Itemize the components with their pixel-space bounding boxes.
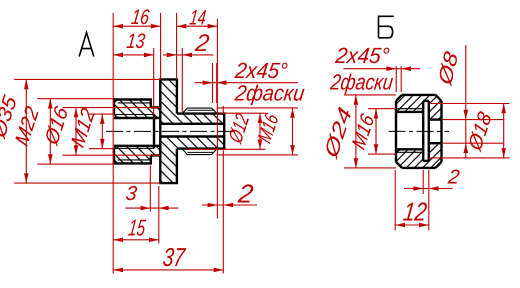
hole entry chamfer, bottom [114,146,118,149]
ext line groove left (bottom) [149,166,151,212]
stud body top edge (O12) [177,112,226,114]
ext line groove right (bottom), view B [428,170,430,231]
nut chamfer top-left [396,95,402,101]
groove left wall (O18) [422,101,424,161]
ext line chamfer end, stud end [216,63,218,103]
dim line M16, view B [375,109,377,154]
svg-text:2x45°: 2x45° [233,58,289,83]
dim line 37 [113,269,223,271]
M22 thread minor line, bottom [118,159,151,161]
leader line 2x45 chamfer, view B [343,68,420,70]
ext line nut left face (bottom) [394,170,396,231]
ext line chamfer start, view B [395,66,397,92]
dim line O35 [25,79,27,183]
dim line 3 (groove width) [125,207,178,209]
svg-text:15: 15 [127,215,147,241]
nut left face [395,101,397,162]
ext line at part left end [112,13,114,274]
svg-text:2фаски: 2фаски [329,70,395,95]
flange left face [159,79,161,183]
svg-text:16: 16 [130,6,151,29]
svg-text:3: 3 [124,183,138,205]
O12 ext line, bottom [188,148,266,150]
O8 hole edge, bottom [429,142,442,144]
O35 ext line, bottom [14,182,160,184]
groove bottom dia line, bottom [151,154,161,156]
flange right face, lower [176,149,178,184]
O18 ext line, top [430,103,510,105]
dim line 16 [113,25,160,27]
ext line at stud end face, upper stub [222,106,224,112]
ext line at M16 thread start [181,48,183,112]
ext line at stud end face (bottom) [222,150,224,273]
dim line M12 [101,114,103,149]
dim line 2 (groove width), view B [404,188,453,190]
drilled hole edge, top [114,117,160,119]
dim line O8 [465,45,467,158]
stud end face [223,112,225,149]
groove bottom dia line [423,160,429,162]
dim line O18 [503,104,505,158]
ext line chamfer start, stud end [212,63,214,103]
M12 ext line, top [89,113,114,115]
stud body bottom edge [177,147,226,149]
M12 thread major line, top [114,114,154,116]
ext line chamfer end, view B [400,66,402,92]
dim line 2 (stud tip) [202,204,257,206]
svg-text:2: 2 [236,178,256,208]
M16 bore major line, top [396,108,423,110]
ext line at flange left face (top) [160,13,162,79]
ext line at M22 thread end [153,48,155,115]
O8 hole edge, top [429,118,442,120]
M12 ext line, bottom [89,148,114,150]
hatch: lower wall of threaded sleeve, view A [114,146,160,164]
axial channel edge, top [160,123,224,125]
svg-text:Ø18: Ø18 [464,108,496,155]
drilled hole edge, bottom [114,145,160,147]
ext line at flange right face (top) [176,13,178,79]
ext line at M16 thread end [216,19,218,219]
nut chamfer bottom-left [396,162,402,168]
hatch: flange upper half + stud upper wall, view A [160,79,224,123]
M22 ext line, bottom [37,163,114,165]
groove bottom dia line, top [151,106,161,108]
flange top edge [159,78,178,80]
M16 thread minor line, bottom [188,151,214,153]
M22 thread minor line, top [118,102,151,104]
groove right wall [428,101,430,161]
groove step, bottom [150,155,152,164]
M16 ext line, bottom [217,154,299,156]
groove step, top [150,98,152,107]
svg-text:Ø8: Ø8 [435,48,463,89]
dim line 12 [395,224,429,226]
flange bottom edge [159,182,178,184]
sleeve left end face upper segment [113,98,115,115]
sleeve bottom outer edge [114,162,151,164]
nut chamfer bottom-right [436,162,442,168]
svg-text:2: 2 [193,30,211,57]
dim line O16 [75,108,77,156]
dim line 15 [113,239,159,241]
O24 ext line, top [344,94,396,96]
O18 ext line, bottom [429,157,510,159]
view label A (Cyrillic) [79,33,94,57]
M16 thread profile band, top (with chamfers) [182,108,216,114]
M22 ext line, top [37,98,114,100]
M16 thread minor line, top [188,109,214,111]
hatch: upper wall of threaded sleeve, view A [114,100,160,119]
M16 ext line top, view B [368,108,396,110]
sleeve top outer edge (M22 major) [114,98,151,100]
O12 ext line, top [219,112,265,114]
nut right face [440,101,442,162]
svg-text:12: 12 [402,197,429,227]
dim line 13 [113,54,154,56]
M16 thread profile band, bottom (with chamfers) [182,149,216,155]
flange right face, upper [176,79,178,113]
dim line M16, view A [292,108,294,155]
svg-text:М12: М12 [68,105,100,151]
svg-text:Ø12: Ø12 [225,110,254,147]
centerline, view B axis [389,130,450,132]
svg-text:2фаски: 2фаски [233,81,306,106]
svg-text:37: 37 [161,242,187,272]
ext line groove right / flange face (bottom) [158,186,160,244]
nut top face (O24) [402,94,436,96]
hatch: lower wall of nut, view B [396,143,442,168]
centerline, view A axis [106,130,235,132]
O8 ext line, bottom [443,142,504,144]
svg-text:2: 2 [446,166,461,188]
O35 ext line, top [14,78,160,80]
leader line 2x45 chamfer, view A [195,82,298,84]
nut bottom face [402,167,436,169]
chamfer at sleeve left end, top [114,100,118,103]
M12 thread major line, bottom [114,147,154,149]
svg-text:13: 13 [125,30,146,53]
svg-text:2x45°: 2x45° [333,43,391,68]
M16 bore major line, bottom [396,151,423,153]
chamfer at sleeve left end, bottom [114,160,118,164]
M16 bore minor edge, bottom [396,148,423,150]
M16 bore minor edge, top [396,111,423,113]
thread end line in hole [153,115,155,149]
nut chamfer top-right [436,95,442,101]
dim line M22 [49,99,51,164]
O16 ext line, top [63,107,161,109]
groove top dia line [423,100,429,102]
dim line 14 [177,25,218,27]
sleeve left end face lower segment [113,148,115,165]
hatch: flange lower half + stud lower wall, view A [160,137,224,184]
O8 ext line, top [443,119,504,121]
dim line 2 (thread runout) [163,54,214,56]
O16 ext line, bottom [63,154,161,156]
M16 ext line, top [217,107,299,109]
hatch: upper wall of nut, view B [396,95,442,120]
hole entry chamfer, top [114,115,118,119]
dim line O12 [259,113,261,149]
M16 ext line bottom, view B [368,153,396,155]
O24 ext line, bottom [344,167,396,169]
svg-text:14: 14 [188,7,207,30]
view label B (Cyrillic) [379,16,394,38]
ext line groove left (bottom), view B [422,170,424,194]
axial channel edge, bottom [160,135,224,137]
dim line O24 [355,95,357,168]
